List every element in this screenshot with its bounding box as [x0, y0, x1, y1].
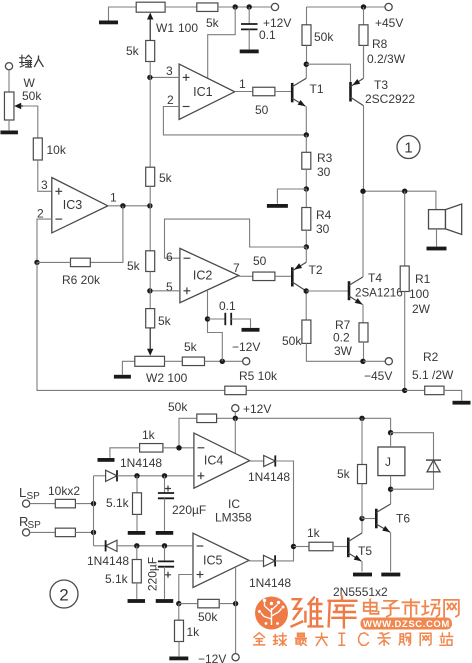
svg-text:R2: R2 [423, 350, 439, 364]
ground (R3/R4 midpoint) [267, 204, 288, 208]
svg-text:R6 20k: R6 20k [62, 273, 101, 287]
wire IC2 V- pin down [208, 290, 223, 361]
svg-text:0.1: 0.1 [259, 28, 276, 42]
node dot (feedback / R1 / R2) [402, 388, 407, 393]
wire feedback column down to bottom row [37, 262, 225, 390]
svg-text:30: 30 [317, 165, 331, 179]
wire 1k to ground [110, 448, 140, 458]
node dot (IC2 V- / -12V) [220, 359, 225, 364]
relay coil J [378, 447, 405, 476]
node dot (R6 left / feedback column) [34, 260, 39, 265]
potentiometer W2 100 [135, 356, 165, 366]
svg-text:5k: 5k [127, 259, 141, 273]
op-amp IC1 [179, 64, 235, 119]
node B dot (0.1 cap tap) [247, 4, 252, 9]
capacitor 220uF (top) [164, 476, 166, 493]
wire IC5 diode to OR node [275, 547, 293, 561]
node dot (R8 top / +45V) [361, 4, 366, 9]
wire IC3 output node [108, 205, 150, 207]
resistor 5k (W2 to -12V) [182, 357, 204, 366]
svg-text:R4: R4 [316, 208, 332, 222]
resistor 1k (IC4 reference) [140, 444, 163, 453]
wire IC2 pin6 feedback to R4/T2 node [165, 219, 307, 258]
svg-text:50k: 50k [168, 400, 188, 414]
wire R2 to ground [444, 390, 462, 400]
op-amp IC2 [180, 248, 239, 302]
wire 5k to IC1 pin3 node and down [149, 62, 151, 168]
svg-text:10kx2: 10kx2 [48, 484, 80, 498]
wire 50 ohm to T2 base [275, 275, 291, 277]
resistor 5k (top feedback) [197, 3, 218, 12]
ground (R2) [453, 401, 471, 405]
transistor T5 [347, 538, 350, 558]
wire diode to IC5 pin- [117, 545, 193, 547]
svg-text:1k: 1k [142, 428, 156, 442]
svg-text:IC: IC [228, 497, 240, 511]
wire sum to bottom diode [94, 545, 106, 547]
svg-text:IC5: IC5 [203, 553, 223, 567]
wire 50k left down to 1k node [179, 418, 197, 448]
node dot (-45V node) [360, 359, 365, 364]
wire speaker to ground [436, 229, 438, 247]
wire T5 collector to T6 base [362, 518, 375, 520]
svg-text:50k: 50k [22, 89, 42, 103]
svg-text:1N4148: 1N4148 [87, 554, 129, 568]
svg-text:0.2: 0.2 [333, 331, 350, 345]
svg-text:5: 5 [166, 280, 173, 294]
transistor T1 [291, 83, 294, 102]
svg-text:T3: T3 [374, 78, 388, 92]
wire chain2 to IC3-output node [149, 186, 151, 251]
input terminal circle [5, 63, 12, 70]
terminal LSP [23, 500, 30, 507]
wire W2 left to ground [122, 361, 134, 375]
svg-text:W: W [24, 76, 36, 90]
node dot (rail / 5k) [359, 416, 364, 421]
circled number 1 [397, 136, 420, 159]
svg-text:3: 3 [166, 64, 173, 78]
node dot (IC3 output) [120, 203, 125, 208]
speaker [429, 210, 446, 229]
resistor R4 30 [305, 189, 307, 208]
resistor 5k (below W1) [146, 41, 155, 62]
resistor 50 (IC1 output) [253, 87, 275, 96]
circled number 2 [50, 580, 78, 608]
ground (0.1 cap) [240, 50, 259, 54]
wire sum column (detector) [93, 476, 95, 546]
svg-text:1N4148: 1N4148 [120, 456, 162, 470]
watermark pill WWW.DZSC.COM [361, 618, 453, 630]
svg-text:5.1 /2W: 5.1 /2W [412, 368, 454, 382]
svg-text:L: L [19, 485, 26, 500]
node dot (diode OR node) [291, 544, 296, 549]
plus sign (220uF top) [165, 486, 171, 492]
node dot (IC2 V- / 0.1 cap) [205, 316, 210, 321]
resistor 50 (IC2 output) [253, 272, 275, 281]
watermark text 电子市场网 [364, 599, 379, 613]
wire W1 to R-5k-top [165, 6, 197, 8]
resistor 50k (IC5 reference) [198, 599, 219, 608]
svg-text:5k: 5k [337, 467, 351, 481]
ground (T6 emitter) [381, 573, 400, 577]
svg-text:SP: SP [27, 491, 41, 502]
wire LSP to 10k [30, 503, 56, 505]
svg-text:R1: R1 [415, 272, 431, 286]
op-amp IC4 [194, 433, 250, 488]
svg-text:J: J [385, 455, 391, 469]
svg-text:2SC2922: 2SC2922 [365, 92, 415, 106]
svg-text:1N4148: 1N4148 [248, 470, 290, 484]
watermark text 维库 [292, 598, 323, 627]
terminal +45V [385, 3, 392, 10]
transistor T3 [349, 82, 352, 102]
svg-text:IC4: IC4 [204, 454, 224, 468]
terminal +12V (top) [271, 3, 278, 10]
transistor T4 [348, 281, 351, 300]
svg-text:50: 50 [253, 254, 267, 268]
wire R6 to node [37, 261, 71, 263]
terminal -12V (bottom) [232, 654, 239, 661]
wire IC1 output to 50 ohm [235, 91, 253, 93]
resistor 1k (IC5 ref to ground) [178, 604, 180, 621]
svg-text:1: 1 [239, 77, 246, 91]
wire node to -12V terminal [235, 604, 237, 654]
svg-text:1: 1 [110, 191, 117, 205]
node dot (relay bottom / T6 collector) [388, 487, 393, 492]
op-amp IC3 [52, 178, 108, 233]
wire W2 to 5k [165, 360, 183, 362]
top rail to +45V [307, 6, 386, 8]
svg-text:3W: 3W [334, 344, 353, 358]
resistor 10k (LSP) [55, 499, 75, 508]
potentiometer W1 100 [136, 2, 165, 12]
diode 1N4148 (negative detect) [106, 540, 117, 551]
svg-text:5k: 5k [158, 314, 172, 328]
ground (input pot) [0, 131, 18, 135]
svg-text:−45V: −45V [364, 369, 392, 383]
wiper arrow of W [18, 105, 23, 107]
svg-text:6: 6 [166, 250, 173, 264]
svg-text:10k: 10k [47, 143, 67, 157]
resistor 50k (T2 collector to -45V) [302, 320, 311, 343]
wire sum to top diode [94, 475, 106, 477]
wire chain4 down to W2 wiper [149, 328, 151, 352]
svg-text:100: 100 [409, 287, 429, 301]
wire relay bottom to T6 collector [390, 476, 392, 490]
resistor 50k (T1 collector load) [306, 7, 308, 25]
svg-text:50k: 50k [314, 30, 334, 44]
wire pot W to ground [8, 120, 10, 130]
diode 1N4148 (IC5 output) [264, 555, 276, 566]
resistor 50k (IC4 reference) [197, 414, 217, 423]
wire IC2 output to 50 ohm [239, 275, 253, 277]
resistor 5k (chain 3) [146, 251, 155, 272]
wire input to pot W [8, 70, 10, 92]
wire chain3 to IC2 pin5 node [149, 272, 151, 309]
node dot (T2 collector / 50k / T4 base) [304, 288, 309, 293]
wire W wiper to 10k [23, 106, 38, 138]
resistor 1k (T5 base) [309, 542, 333, 551]
ground (IC5 ref) [169, 657, 188, 661]
capacitor 220uF (bottom) [164, 546, 166, 561]
svg-text:1: 1 [404, 140, 412, 157]
watermark logo circle [255, 597, 288, 630]
svg-text:W2 100: W2 100 [146, 371, 188, 385]
ground (220uF bottom) [156, 599, 174, 603]
svg-text:T2: T2 [309, 263, 323, 277]
svg-text:SP: SP [28, 520, 42, 531]
svg-text:50k: 50k [198, 610, 218, 624]
svg-text:7: 7 [233, 261, 240, 275]
svg-text:5k: 5k [126, 44, 140, 58]
ground (0.1 cap at IC2) [242, 328, 260, 332]
node dot (RSP sum) [91, 530, 96, 535]
node dot (5.1k bottom) [134, 543, 139, 548]
wire output rail (T3/T4 to speaker) [363, 191, 436, 209]
resistor 5k (chain 2) [146, 167, 155, 186]
svg-text:220µF: 220µF [172, 503, 206, 517]
wire ref node to IC4 pin- [163, 447, 194, 449]
node A dot (top rail) [233, 4, 238, 9]
svg-text:5k: 5k [206, 16, 220, 30]
node dot (IC5 V- / -12V) [233, 601, 238, 606]
node dot (output at R1) [402, 189, 407, 194]
terminal -12V (top section) [243, 358, 250, 365]
wire relay top [390, 433, 392, 447]
wire IC4 output to diode [250, 460, 264, 462]
potentiometer W 50k (input) [4, 92, 14, 120]
wire 5k to -12V terminal [205, 360, 243, 362]
resistor R7 0.2 3W [359, 323, 368, 342]
svg-text:1k: 1k [187, 625, 201, 639]
resistor R1 100 2W [404, 191, 406, 266]
resistor 5k (T5 collector load) [361, 418, 363, 464]
svg-text:IC3: IC3 [63, 198, 83, 212]
svg-text:T4: T4 [368, 271, 382, 285]
node dot (+12V stub) [233, 416, 238, 421]
svg-text:5k: 5k [184, 340, 198, 354]
wire T2 collector node to T4 base [306, 290, 348, 292]
svg-text:2: 2 [37, 207, 44, 221]
node dot (220uF top) [162, 473, 167, 478]
node dot (IC4 ref node) [176, 445, 181, 450]
capacitor 0.1 (IC1 supply bypass) [248, 7, 250, 24]
svg-text:2SA1216: 2SA1216 [355, 287, 403, 300]
ground (W1 left end) [99, 21, 118, 25]
resistor 5k (chain 4) [146, 309, 155, 328]
svg-text:1k: 1k [307, 526, 321, 540]
svg-text:3: 3 [41, 178, 48, 192]
svg-text:WWW.DZSC.COM: WWW.DZSC.COM [363, 619, 450, 630]
plus sign (220uF bottom) [165, 572, 171, 578]
wire IC5 output to diode [249, 560, 264, 562]
node dot (T1 emitter / R3 / IC1 pin2) [304, 132, 309, 137]
svg-text:R3: R3 [317, 151, 333, 165]
ground (220uF top) [156, 531, 174, 535]
wire W1-left to ground [109, 7, 137, 21]
resistor R3 30 [305, 135, 307, 152]
diode 1N4148 (IC4 output) [264, 455, 276, 466]
terminal +12V (bottom) [232, 405, 239, 412]
wire IC3 pin2 to R6 node [37, 219, 52, 262]
resistor R8 0.2/3W [363, 7, 365, 25]
terminal RSP [23, 529, 30, 536]
wiper arrow of W1 [149, 17, 151, 41]
wire flyback diode branch top [391, 433, 434, 490]
svg-text:R8: R8 [372, 37, 388, 51]
node dot (relay top) [388, 430, 393, 435]
wire 10k RSP to sum node [75, 531, 93, 533]
node dot (T1 collector / 50k / T3 base) [304, 61, 309, 66]
op-amp IC5 [193, 533, 249, 587]
svg-text:5k: 5k [159, 171, 173, 185]
wire OR node to 1k [294, 546, 310, 548]
svg-text:2: 2 [167, 93, 174, 107]
transistor T6 [375, 509, 378, 529]
svg-text:+12V: +12V [243, 402, 271, 416]
wire RSP to 10k [30, 531, 56, 533]
wire +12V rail [234, 412, 236, 419]
resistor 5.1k (bottom) [136, 546, 138, 560]
node dot (IC1 pin3 / 5k chain) [147, 75, 152, 80]
wire 5k to +12V terminal [218, 6, 272, 8]
svg-text:R5 10k: R5 10k [239, 369, 278, 383]
ground (5.1k bottom) [128, 599, 146, 603]
ground (W2 left) [114, 375, 131, 379]
terminal -45V [385, 358, 392, 365]
watermark text 全球最大IC采购网站 [254, 633, 265, 645]
svg-text:IC1: IC1 [193, 85, 213, 99]
svg-text:LM358: LM358 [215, 511, 252, 525]
svg-text:1N4148: 1N4148 [249, 576, 291, 590]
transistor T2 [291, 267, 294, 286]
svg-text:T6: T6 [396, 512, 410, 526]
resistor 10k (RSP) [55, 528, 75, 537]
svg-text:50k: 50k [282, 334, 302, 348]
svg-text:+45V: +45V [375, 16, 403, 30]
svg-text:50: 50 [255, 103, 269, 117]
wire 10k LSP to sum node [75, 503, 93, 505]
ground (T5 emitter) [353, 573, 372, 577]
ground (5.1k top) [128, 531, 146, 535]
flyback diode (across relay) [426, 459, 441, 461]
wire IC1 pin2 feedback to T1 emitter node [163, 107, 306, 135]
node dot (output at T3/T4) [360, 189, 365, 194]
node dot (LSP sum) [91, 501, 96, 506]
wire IC5 pin+ to reference node [179, 575, 193, 604]
resistor 5.1k (top) [136, 476, 138, 493]
svg-text:0.2/3W: 0.2/3W [367, 52, 406, 66]
ground (speaker) [427, 247, 447, 251]
wire 1k to T5 base [333, 546, 347, 548]
wire IC3 output down to R6 [90, 206, 123, 263]
wire +12V to IC4 power pin [234, 418, 236, 453]
wire +12V supply to IC1 power pin [208, 7, 236, 78]
svg-text:T1: T1 [310, 82, 324, 96]
wire to -45V terminal [363, 360, 385, 362]
wire T1 collector node to T3 base [306, 64, 350, 83]
wire R5 to output feedback node [246, 389, 405, 391]
node dot (220uF bottom) [162, 543, 167, 548]
diode 1N4148 (positive detect) [106, 470, 117, 481]
svg-text:−12V: −12V [232, 340, 260, 354]
svg-text:2W: 2W [412, 302, 431, 316]
capacitor 0.1 (IC2 supply bypass) [208, 318, 225, 320]
svg-text:30: 30 [316, 222, 330, 236]
svg-text:0.1: 0.1 [219, 299, 236, 313]
ground (IC4 ref) [98, 458, 115, 462]
resistor R6 20k [71, 258, 91, 267]
resistor 10k (input) [33, 138, 42, 160]
node dot (R4 / T2 emitter / IC2 pin6) [304, 244, 309, 249]
svg-text:100: 100 [178, 21, 198, 35]
node dot (IC3 output to 5k chain) [147, 203, 152, 208]
resistor R2 5.1/2W [405, 389, 425, 391]
node dot (IC5 ref node) [176, 601, 181, 606]
wire diode to IC4 pin+ [117, 475, 194, 477]
node dot (R3/R4 midpoint) [304, 186, 309, 191]
wire midpoint to ground [277, 189, 306, 204]
wire IC4 diode to OR node [275, 461, 293, 547]
svg-text:−12V: −12V [198, 652, 226, 663]
node dot (5.1k top) [134, 473, 139, 478]
wire 50 ohm to T1 base [275, 91, 291, 93]
svg-text:220µF: 220µF [146, 557, 160, 591]
watermark logo branches [261, 603, 282, 626]
svg-text:W1: W1 [156, 21, 174, 35]
wire IC2 pin5 input [150, 290, 180, 292]
svg-text:IC2: IC2 [193, 269, 213, 283]
label 输入 (input) [20, 55, 32, 67]
svg-text:5.1k: 5.1k [105, 572, 129, 586]
svg-text:5.1k: 5.1k [106, 496, 130, 510]
wire IC5 V- pin down [235, 567, 237, 603]
node dot (T5 collector / T6 base) [359, 516, 364, 521]
svg-text:T5: T5 [358, 544, 372, 558]
wire IC1 pin3 input [150, 76, 179, 78]
node dot (IC2 pin5 / 5k chain) [147, 288, 152, 293]
svg-text:2: 2 [59, 586, 68, 605]
resistor R5 10k (feedback) [225, 386, 246, 395]
